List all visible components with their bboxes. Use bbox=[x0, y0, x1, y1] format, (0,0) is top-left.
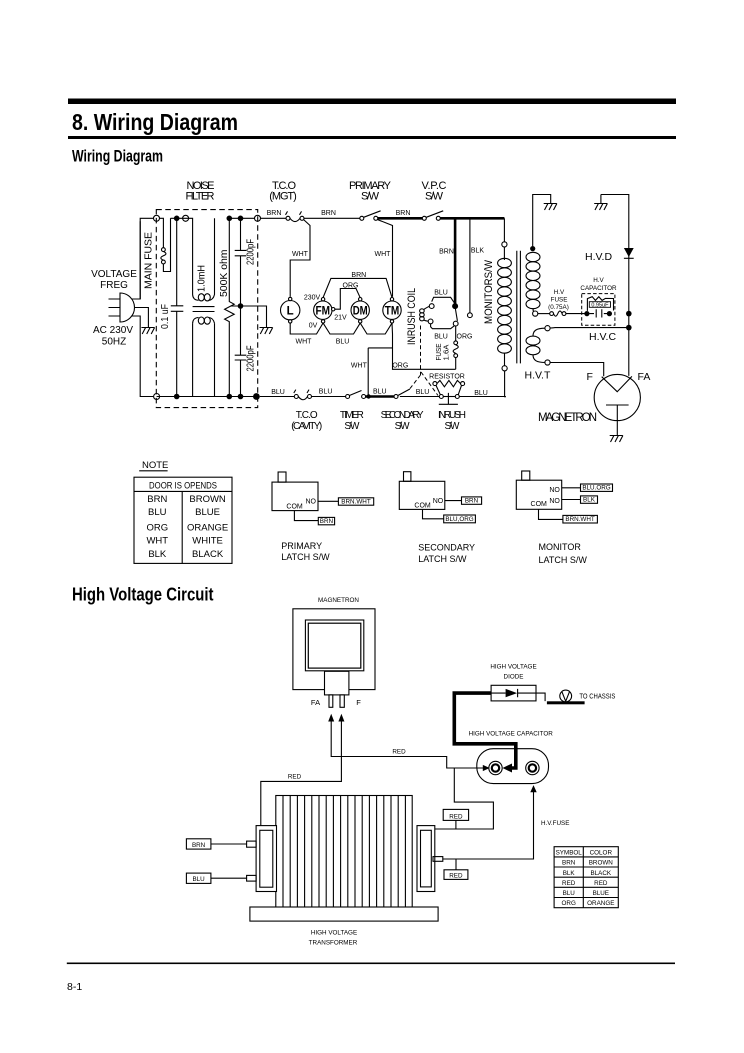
svg-text:ORG: ORG bbox=[343, 283, 359, 290]
svg-text:NO: NO bbox=[433, 498, 444, 505]
svg-text:T.C.O: T.C.O bbox=[296, 410, 318, 421]
svg-text:BROWN: BROWN bbox=[589, 860, 614, 867]
svg-text:COM: COM bbox=[531, 501, 548, 508]
svg-text:ORG: ORG bbox=[392, 363, 408, 370]
svg-text:0.1 uF: 0.1 uF bbox=[159, 304, 171, 329]
svg-text:1.6A: 1.6A bbox=[444, 344, 451, 360]
svg-text:BLU: BLU bbox=[563, 890, 576, 897]
svg-text:BLK: BLK bbox=[563, 870, 576, 877]
svg-text:BRN: BRN bbox=[321, 210, 336, 217]
svg-text:WHT: WHT bbox=[296, 339, 313, 346]
svg-text:BLU: BLU bbox=[192, 876, 205, 883]
svg-text:TRANSFORMER: TRANSFORMER bbox=[309, 940, 358, 947]
svg-text:BLUE: BLUE bbox=[195, 507, 220, 518]
svg-text:BLK: BLK bbox=[148, 549, 167, 560]
svg-text:COM: COM bbox=[414, 502, 431, 509]
svg-text:HIGH VOLTAGE: HIGH VOLTAGE bbox=[490, 664, 536, 671]
svg-text:BRN.WHT: BRN.WHT bbox=[341, 498, 371, 505]
svg-text:WHITE: WHITE bbox=[192, 536, 223, 547]
svg-text:H.V.T: H.V.T bbox=[525, 370, 551, 382]
svg-text:RESISTOR: RESISTOR bbox=[429, 374, 465, 381]
svg-text:RED: RED bbox=[594, 880, 608, 887]
svg-text:SYMBOL: SYMBOL bbox=[556, 850, 583, 857]
svg-text:F: F bbox=[356, 698, 361, 707]
svg-text:21V: 21V bbox=[334, 315, 347, 322]
svg-text:(CAVITY): (CAVITY) bbox=[291, 421, 322, 432]
svg-text:H.V.C: H.V.C bbox=[589, 331, 616, 343]
svg-text:NO: NO bbox=[549, 498, 560, 505]
svg-text:AC 230V: AC 230V bbox=[93, 325, 133, 336]
svg-text:BRN.WHT: BRN.WHT bbox=[565, 516, 595, 523]
svg-text:MONITOR: MONITOR bbox=[539, 542, 582, 552]
svg-text:BLU: BLU bbox=[319, 389, 333, 396]
svg-text:DIODE: DIODE bbox=[504, 674, 524, 681]
svg-text:BLU: BLU bbox=[434, 290, 448, 297]
svg-text:FUSE: FUSE bbox=[436, 343, 443, 360]
svg-text:BRN: BRN bbox=[267, 210, 282, 217]
svg-text:RED: RED bbox=[449, 813, 463, 820]
svg-text:BLACK: BLACK bbox=[590, 870, 611, 877]
svg-text:NO: NO bbox=[305, 499, 316, 506]
svg-text:BROWN: BROWN bbox=[189, 494, 226, 505]
svg-text:8. Wiring Diagram: 8. Wiring Diagram bbox=[72, 109, 238, 135]
svg-text:BLU.ORG: BLU.ORG bbox=[582, 485, 610, 492]
svg-text:ORANGE: ORANGE bbox=[587, 900, 614, 907]
svg-text:BLACK: BLACK bbox=[192, 549, 224, 560]
svg-text:S/W: S/W bbox=[395, 421, 411, 432]
svg-text:FREG: FREG bbox=[100, 280, 128, 291]
svg-text:MAGNETRON: MAGNETRON bbox=[318, 597, 359, 604]
svg-text:FILTER: FILTER bbox=[186, 191, 215, 203]
svg-text:SECONDARY: SECONDARY bbox=[418, 542, 475, 552]
svg-text:(0.75A): (0.75A) bbox=[548, 304, 569, 311]
svg-text:RED: RED bbox=[392, 749, 406, 756]
svg-text:BLU: BLU bbox=[434, 334, 448, 341]
svg-text:ORG: ORG bbox=[562, 900, 576, 907]
svg-text:FUSE: FUSE bbox=[551, 297, 568, 304]
svg-text:BLUE: BLUE bbox=[593, 890, 609, 897]
svg-text:BLU: BLU bbox=[271, 389, 285, 396]
svg-text:BRN: BRN bbox=[147, 494, 167, 505]
svg-text:500K ohm: 500K ohm bbox=[218, 249, 230, 297]
svg-text:DOOR IS OPENDS: DOOR IS OPENDS bbox=[149, 480, 217, 491]
svg-text:BRN: BRN bbox=[351, 272, 366, 279]
svg-text:FA: FA bbox=[638, 371, 651, 383]
svg-text:(MGT): (MGT) bbox=[269, 191, 297, 203]
svg-text:WHT: WHT bbox=[292, 251, 309, 258]
svg-text:S/W: S/W bbox=[344, 421, 360, 432]
svg-text:High Voltage Circuit: High Voltage Circuit bbox=[72, 585, 214, 605]
svg-text:L: L bbox=[287, 306, 294, 318]
svg-text:VOLTAGE: VOLTAGE bbox=[91, 269, 137, 280]
svg-text:INRUSH: INRUSH bbox=[438, 410, 466, 421]
svg-text:MAIN FUSE: MAIN FUSE bbox=[143, 232, 155, 289]
svg-text:LATCH S/W: LATCH S/W bbox=[281, 552, 330, 562]
svg-text:Wiring Diagram: Wiring Diagram bbox=[72, 148, 163, 166]
svg-text:H.V.FUSE: H.V.FUSE bbox=[541, 820, 569, 827]
svg-text:0V: 0V bbox=[309, 323, 318, 330]
svg-text:S/W: S/W bbox=[361, 191, 380, 203]
svg-text:BLU: BLU bbox=[416, 389, 430, 396]
svg-text:BLU: BLU bbox=[336, 339, 350, 346]
svg-text:NO: NO bbox=[549, 487, 560, 494]
svg-text:2200pF: 2200pF bbox=[246, 346, 257, 372]
svg-text:BRN: BRN bbox=[439, 249, 454, 256]
svg-text:ORG: ORG bbox=[146, 522, 168, 533]
svg-text:COM: COM bbox=[286, 503, 303, 510]
svg-text:RED: RED bbox=[288, 774, 302, 781]
svg-text:CAPACITOR: CAPACITOR bbox=[580, 285, 617, 292]
svg-text:230V: 230V bbox=[304, 295, 321, 302]
svg-text:TM: TM bbox=[385, 306, 400, 318]
svg-text:1.0mH: 1.0mH bbox=[196, 265, 208, 292]
svg-text:LATCH S/W: LATCH S/W bbox=[418, 554, 467, 564]
svg-text:S/W: S/W bbox=[445, 421, 461, 432]
svg-text:BLK: BLK bbox=[583, 497, 596, 504]
svg-text:TO CHASSIS: TO CHASSIS bbox=[579, 692, 615, 701]
svg-text:BLU: BLU bbox=[373, 389, 387, 396]
svg-text:F: F bbox=[587, 371, 593, 383]
svg-text:MAGNETRON: MAGNETRON bbox=[538, 412, 597, 424]
svg-text:ORANGE: ORANGE bbox=[187, 522, 228, 533]
svg-text:BRN: BRN bbox=[320, 518, 334, 525]
svg-text:WHT: WHT bbox=[146, 536, 168, 547]
svg-text:FM: FM bbox=[316, 306, 331, 318]
svg-text:RED: RED bbox=[449, 873, 463, 880]
svg-text:BRN: BRN bbox=[396, 210, 411, 217]
svg-text:HIGH VOLTAGE CAPACITOR: HIGH VOLTAGE CAPACITOR bbox=[469, 731, 554, 738]
svg-text:MONITORS/W: MONITORS/W bbox=[483, 259, 495, 324]
svg-text:ORG: ORG bbox=[457, 334, 473, 341]
svg-text:FA: FA bbox=[311, 698, 320, 707]
svg-text:LATCH S/W: LATCH S/W bbox=[539, 555, 588, 565]
svg-text:WHT: WHT bbox=[351, 363, 368, 370]
svg-text:WHT: WHT bbox=[375, 251, 392, 258]
svg-text:TIMER: TIMER bbox=[340, 410, 364, 421]
svg-text:BLK: BLK bbox=[471, 248, 485, 255]
svg-text:BLU,ORG: BLU,ORG bbox=[445, 516, 473, 523]
svg-text:BLU: BLU bbox=[148, 507, 167, 518]
svg-text:2200pF: 2200pF bbox=[246, 239, 257, 265]
svg-text:BRN: BRN bbox=[192, 842, 206, 849]
svg-text:RED: RED bbox=[562, 880, 576, 887]
svg-text:S/W: S/W bbox=[425, 191, 444, 203]
svg-text:8-1: 8-1 bbox=[67, 981, 82, 993]
svg-text:50HZ: 50HZ bbox=[102, 337, 126, 348]
svg-text:BRN: BRN bbox=[465, 497, 479, 504]
svg-text:BLU: BLU bbox=[474, 390, 488, 397]
svg-text:HIGH VOLTAGE: HIGH VOLTAGE bbox=[311, 929, 357, 936]
svg-text:H.V: H.V bbox=[593, 277, 604, 284]
svg-text:BRN: BRN bbox=[562, 860, 576, 867]
svg-text:H.V.D: H.V.D bbox=[585, 251, 612, 263]
svg-text:INRUSH COIL: INRUSH COIL bbox=[406, 288, 418, 345]
svg-text:PRIMARY: PRIMARY bbox=[281, 541, 322, 551]
svg-text:DM: DM bbox=[353, 306, 368, 318]
svg-text:H.V: H.V bbox=[554, 289, 565, 296]
svg-text:SECONDARY: SECONDARY bbox=[381, 410, 424, 421]
svg-text:0.95uF: 0.95uF bbox=[591, 302, 609, 308]
svg-text:NOTE: NOTE bbox=[142, 460, 168, 471]
svg-text:COLOR: COLOR bbox=[590, 850, 613, 857]
